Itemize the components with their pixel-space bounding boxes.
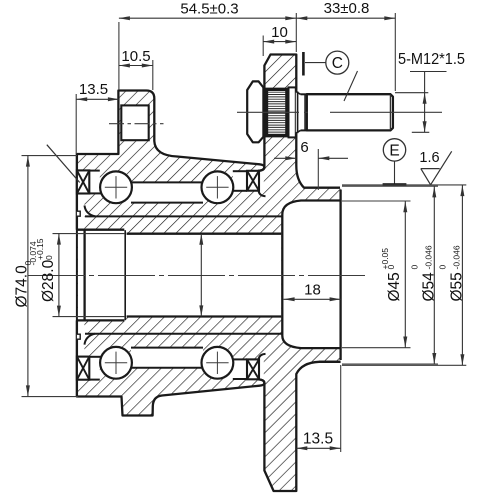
ring face groove top (77, 211, 80, 216)
serration lines (268, 91, 286, 93)
M12 dim ticks (410, 71, 447, 73)
bearing ball bottom-right (202, 347, 234, 379)
svg-text:10.5: 10.5 (121, 48, 150, 65)
flange outline top (258, 55, 340, 188)
cavity outline (282, 201, 340, 349)
seal top-right (247, 171, 259, 191)
dim 6 (317, 149, 319, 190)
stud threaded shank (307, 94, 393, 130)
raceway strip between balls bottom (131, 348, 203, 368)
leader on stud (344, 71, 358, 101)
dim Ø28 inner arrows (200, 234, 202, 317)
svg-text:-0.046: -0.046 (424, 245, 434, 269)
svg-text:54.5±0.3: 54.5±0.3 (180, 1, 238, 18)
svg-text:13.5: 13.5 (79, 81, 108, 98)
flange outline bottom (258, 362, 340, 491)
recess mouth edge (339, 190, 341, 361)
dim 33±0.8 (394, 13, 396, 91)
bearing outer ring and hub body (hatched section) (77, 91, 265, 416)
datum C tick (302, 52, 305, 76)
stud collar (289, 87, 296, 137)
leader to seal (47, 145, 80, 183)
bearing ball bottom-left (100, 347, 132, 379)
ring face groove bottom (77, 334, 80, 339)
pilot lower surface line (319, 361, 341, 363)
stud axis centerline (237, 111, 444, 113)
svg-text:0: 0 (438, 265, 448, 270)
svg-text:Ø28.0: Ø28.0 (40, 259, 57, 302)
seal pocket top-left (78, 193, 85, 229)
bearing ball top-right (202, 171, 234, 203)
dim 54.5±0.3 (118, 22, 120, 90)
bore outline (83, 230, 85, 321)
svg-text:-0.046: -0.046 (452, 245, 462, 269)
main axis centerline (28, 275, 366, 277)
svg-text:E: E (389, 142, 399, 159)
bearing race lines top row (89, 170, 100, 172)
stud serration section (265, 90, 289, 135)
svg-text:C: C (332, 55, 343, 72)
svg-text:13.5: 13.5 (303, 430, 333, 447)
seal bottom-right (247, 359, 259, 379)
svg-text:33±0.8: 33±0.8 (324, 0, 370, 17)
seal pocket bottom-left (78, 321, 85, 357)
svg-text:0: 0 (386, 265, 396, 270)
dim 10.5 (boss width) (152, 60, 154, 90)
datum C circle (326, 51, 349, 74)
svg-text:10: 10 (271, 24, 288, 41)
stud neck (296, 91, 307, 133)
flange stud hole edges (264, 88, 296, 90)
inner cavity white (282, 201, 340, 349)
dim 10 (flange thickness) (262, 36, 264, 57)
seal gap top-left (89, 171, 100, 194)
svg-text:0: 0 (410, 265, 420, 270)
dim Ø28 (53, 233, 126, 235)
outer ring outline bottom (77, 320, 265, 415)
svg-text:1.6: 1.6 (419, 150, 439, 166)
seal gap bottom-right (233, 359, 247, 379)
svg-text:6: 6 (300, 139, 308, 156)
svg-text:Ø54: Ø54 (421, 272, 438, 302)
seal gap top-right (233, 171, 247, 191)
boss hole centerline (109, 123, 164, 125)
outer ring left face (76, 154, 78, 397)
datum E symbol (383, 139, 405, 161)
dim 13.5 (bottom) (340, 365, 342, 452)
dim Ø55 (342, 184, 466, 186)
dim 18 (284, 298, 341, 300)
dim Ø74 (22, 155, 78, 157)
svg-text:5-M12*1.5: 5-M12*1.5 (398, 51, 465, 68)
seal bottom-left (77, 357, 89, 380)
svg-text:0: 0 (44, 255, 54, 260)
outer ring outline top (77, 91, 265, 230)
seal gap bottom-left (89, 357, 100, 380)
bearing race lines bottom row (89, 379, 100, 381)
seal sliver top-right (247, 171, 264, 191)
svg-text:Ø45: Ø45 (386, 272, 403, 301)
wheel mounting flange and pilot (hatched section) (264, 55, 340, 492)
seal sliver bottom-right (247, 359, 264, 379)
dim 13.5 (top left) (75, 94, 77, 154)
svg-text:Ø55: Ø55 (449, 272, 466, 301)
svg-text:Ø74.0: Ø74.0 (14, 265, 31, 308)
hub centre bore white (78, 230, 125, 321)
seal top-left (77, 170, 89, 193)
svg-text:18: 18 (304, 282, 321, 299)
knuckle boss bolt hole white (121, 105, 148, 140)
wheel stud head (247, 81, 263, 142)
dim Ø45 (342, 200, 411, 202)
bearing ball top-left (100, 171, 132, 203)
dim Ø54 (342, 185, 438, 187)
raceway strip between balls top (131, 182, 203, 202)
